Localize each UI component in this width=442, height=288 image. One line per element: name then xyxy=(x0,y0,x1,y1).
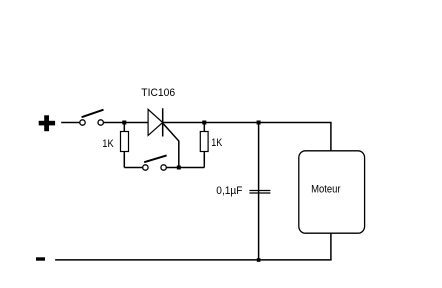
svg-text:Moteur: Moteur xyxy=(311,184,341,196)
svg-text:0,1µF: 0,1µF xyxy=(216,185,242,197)
svg-text:1K: 1K xyxy=(102,138,114,150)
svg-text:1K: 1K xyxy=(211,137,223,149)
svg-text:TIC106: TIC106 xyxy=(141,87,175,99)
